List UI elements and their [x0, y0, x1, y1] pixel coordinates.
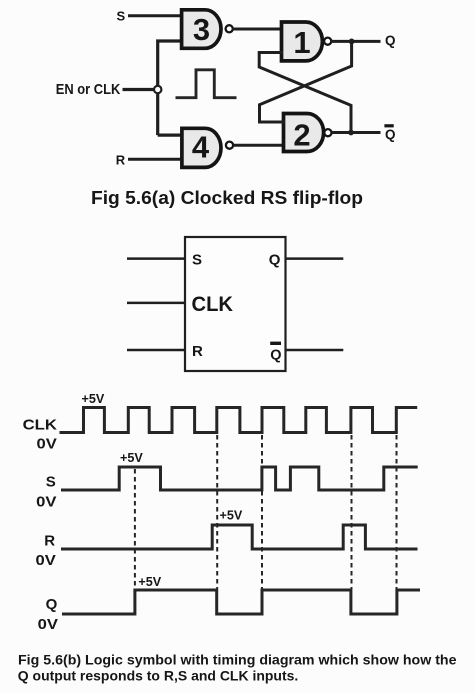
svg-text:4: 4 [192, 130, 210, 165]
svg-text:EN or CLK: EN or CLK [56, 81, 121, 98]
wire Q-bar output line [286, 349, 343, 352]
clock pulse symbol [176, 70, 237, 98]
svg-text:Q output responds to R,S and C: Q output responds to R,S and CLK inputs. [18, 669, 299, 684]
wire Q output line [286, 257, 343, 260]
svg-text:Q: Q [270, 347, 281, 363]
wire S input line [127, 257, 185, 260]
svg-text:Q: Q [385, 33, 396, 48]
svg-text:R: R [192, 343, 203, 360]
wire junction vertical to gate 3 and gate 4 inputs [158, 41, 183, 135]
guide dashed line 3 [261, 435, 263, 589]
svg-text:+5V: +5V [82, 392, 105, 406]
guide dashed line 1 [134, 469, 136, 588]
wire gate 4 output to gate 2 input [233, 144, 285, 147]
svg-text:Fig 5.6(b) Logic symbol with t: Fig 5.6(b) Logic symbol with timing diag… [18, 652, 457, 667]
wire EN/CLK to junction [123, 88, 154, 91]
svg-text:Fig 5.6(a) Clocked RS flip-flo: Fig 5.6(a) Clocked RS flip-flop [91, 188, 363, 208]
waveform CLK [60, 408, 418, 433]
svg-text:0V: 0V [37, 436, 57, 453]
svg-text:3: 3 [193, 12, 210, 47]
guide dashed line 4 [351, 435, 353, 589]
waveform Q [62, 590, 420, 614]
svg-text:R: R [44, 533, 55, 550]
waveform R [61, 525, 418, 549]
svg-text:0V: 0V [38, 616, 58, 633]
junction node Q-bar [348, 130, 354, 136]
svg-text:0V: 0V [36, 552, 56, 569]
svg-text:R: R [116, 153, 126, 168]
nand gate 3 [182, 10, 233, 49]
label Q-bar [384, 126, 395, 142]
svg-text:CLK: CLK [23, 417, 58, 434]
wire gate 1 output to Q [331, 40, 381, 43]
nand gate 4 [182, 128, 233, 167]
svg-text:Q: Q [269, 251, 281, 268]
svg-text:S: S [46, 474, 56, 491]
flip-flop logic symbol box [185, 237, 286, 371]
svg-text:0V: 0V [36, 494, 56, 511]
wire gate 3 output to gate 1 input [232, 28, 283, 31]
svg-text:S: S [192, 251, 202, 268]
waveform S [61, 467, 418, 490]
guide dashed line 2 [216, 435, 218, 589]
pin label Q-bar [270, 343, 281, 363]
guide dashed line 5 [396, 435, 398, 589]
svg-text:2: 2 [293, 118, 310, 153]
wire cross-coupling Q to gate 2 input [260, 41, 352, 122]
svg-text:S: S [116, 8, 125, 23]
nand gate 1 [282, 22, 332, 61]
svg-text:+5V: +5V [120, 451, 143, 465]
wire CLK input line [127, 302, 185, 305]
junction node Q [349, 39, 355, 45]
wire gate 2 output to Q-bar [331, 131, 380, 134]
nand gate 2 [284, 114, 332, 153]
svg-text:Q: Q [46, 596, 58, 613]
svg-text:1: 1 [293, 25, 310, 60]
wire R input line [127, 349, 185, 352]
svg-text:Q: Q [385, 127, 396, 142]
wire R to gate 4 input [128, 158, 183, 161]
wire cross-coupling Q-bar to gate 1 input [259, 53, 351, 133]
svg-text:CLK: CLK [192, 293, 234, 316]
wire S to gate 3 input [128, 14, 183, 17]
svg-text:+5V: +5V [220, 508, 243, 522]
junction EN/CLK open circle [154, 86, 161, 93]
svg-text:+5V: +5V [138, 575, 161, 589]
